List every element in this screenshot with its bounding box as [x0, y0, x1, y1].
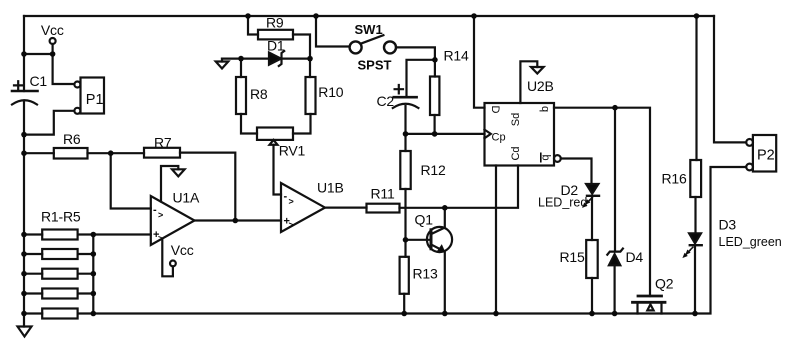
svg-text:LED_green: LED_green [719, 235, 782, 249]
svg-text:D: D [489, 106, 501, 114]
svg-text:C2: C2 [377, 93, 395, 109]
svg-text:Q2: Q2 [655, 276, 674, 292]
svg-text:U1A: U1A [173, 190, 200, 206]
svg-text:P2: P2 [757, 148, 775, 164]
svg-text:>: > [289, 220, 294, 230]
svg-text:P1: P1 [86, 92, 104, 108]
svg-text:SPST: SPST [358, 58, 392, 73]
svg-text:Sd: Sd [510, 113, 522, 126]
svg-text:R13: R13 [413, 266, 438, 282]
svg-text:Vcc: Vcc [171, 242, 194, 258]
svg-text:D4: D4 [626, 249, 644, 265]
svg-text:-: - [284, 191, 288, 203]
svg-text:Cp: Cp [492, 132, 506, 144]
svg-text:Cd: Cd [510, 146, 522, 160]
svg-text:D3: D3 [719, 217, 737, 233]
svg-text:LED_red: LED_red [538, 196, 587, 210]
svg-text:R1-R5: R1-R5 [41, 209, 81, 225]
svg-text:C1: C1 [30, 73, 48, 89]
svg-text:R16: R16 [662, 171, 687, 187]
svg-text:SW1: SW1 [355, 22, 383, 37]
svg-text:>: > [158, 210, 163, 220]
svg-text:U1B: U1B [317, 180, 344, 196]
svg-text:R8: R8 [250, 86, 268, 102]
svg-text:q: q [539, 106, 551, 112]
svg-text:R12: R12 [421, 162, 446, 178]
svg-text:Vcc: Vcc [41, 22, 64, 38]
svg-text:U2B: U2B [527, 78, 554, 94]
svg-text:RV1: RV1 [279, 143, 306, 159]
svg-text:R9: R9 [266, 15, 284, 31]
svg-text:-: - [153, 204, 157, 216]
svg-text:R6: R6 [63, 131, 81, 147]
svg-text:>: > [289, 197, 294, 207]
svg-text:Q1: Q1 [415, 212, 434, 228]
svg-text:R10: R10 [318, 84, 343, 100]
svg-text:>: > [158, 234, 163, 244]
svg-text:R11: R11 [371, 186, 395, 202]
svg-text:R7: R7 [154, 135, 172, 151]
svg-text:R14: R14 [444, 48, 469, 64]
svg-text:D1: D1 [267, 38, 285, 54]
svg-text:R15: R15 [560, 249, 585, 265]
